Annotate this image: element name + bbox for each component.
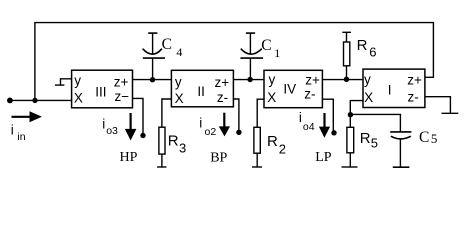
svg-text:X: X [364, 90, 373, 105]
svg-text:LP: LP [315, 150, 332, 165]
capacitor C4 [143, 33, 165, 80]
svg-text:z−: z− [115, 89, 130, 104]
svg-text:BP: BP [210, 150, 227, 165]
svg-text:2: 2 [279, 141, 286, 156]
svg-text:z+: z+ [215, 75, 230, 90]
resistor R3 [157, 127, 166, 167]
svg-text:y: y [364, 72, 371, 87]
svg-text:o4: o4 [303, 121, 315, 133]
svg-text:IV: IV [283, 82, 296, 97]
svg-text:R: R [357, 37, 368, 54]
wire z+ II to y IV [233, 79, 264, 81]
wire z+ IV to y I [322, 79, 363, 81]
multiplier U-III box [72, 70, 133, 108]
multiplier U-IV box [264, 70, 322, 107]
resistor R5 [342, 114, 358, 167]
svg-text:z+: z+ [407, 73, 422, 88]
svg-text:4: 4 [176, 45, 182, 59]
svg-text:y: y [269, 72, 276, 87]
node input terminal [7, 98, 13, 104]
svg-text:z+: z+ [305, 73, 320, 88]
capacitor C5 [390, 132, 411, 167]
svg-text:C: C [162, 36, 172, 53]
svg-text:I: I [388, 83, 392, 98]
svg-text:X: X [74, 91, 83, 106]
wire z- III down to HP node [133, 98, 144, 135]
svg-text:R: R [360, 130, 371, 147]
svg-text:R: R [267, 133, 278, 150]
wire y-stub T-bar [55, 84, 65, 86]
svg-text:R: R [168, 132, 179, 149]
node C1 junction [247, 77, 252, 82]
wire z- I to ground [425, 97, 451, 114]
wire X of IV down to R2 [257, 99, 264, 127]
svg-text:y: y [175, 75, 182, 90]
svg-text:i: i [102, 116, 105, 131]
multiplier U-II box [171, 70, 233, 107]
svg-text:z-: z- [217, 90, 228, 105]
node HP terminal [140, 133, 145, 138]
svg-text:II: II [197, 84, 205, 99]
capacitor C1 [240, 33, 263, 80]
svg-text:z-: z- [408, 89, 419, 104]
ground T-bar right [442, 112, 459, 114]
node BP terminal [236, 130, 241, 135]
node feedback junction [32, 98, 37, 103]
wire z- II down to BP node [233, 99, 239, 132]
svg-text:1: 1 [274, 46, 280, 60]
arrow i_in [12, 111, 42, 122]
svg-text:3: 3 [179, 141, 186, 156]
svg-text:o2: o2 [205, 126, 217, 138]
svg-text:C: C [261, 37, 271, 54]
resistor R2 [252, 127, 262, 167]
svg-text:o3: o3 [106, 125, 118, 137]
wire z+ III to y II [133, 79, 172, 81]
arrow i_o4 [319, 113, 330, 138]
svg-text:z+: z+ [114, 74, 129, 89]
svg-text:i: i [11, 123, 14, 138]
arrow i_o2 [219, 113, 230, 137]
multiplier U-I box [363, 69, 425, 107]
wire z- IV down to LP node [322, 99, 333, 133]
svg-text:5: 5 [431, 131, 438, 146]
node R5/C5 junction [348, 112, 353, 117]
svg-text:6: 6 [369, 45, 376, 60]
svg-text:in: in [17, 131, 25, 143]
resistor R6 [342, 32, 351, 79]
svg-text:X: X [267, 90, 276, 105]
svg-text:HP: HP [120, 150, 138, 165]
node LP terminal [331, 130, 336, 135]
wire feedback loop top rail [35, 23, 434, 101]
wire node to C5 [350, 114, 400, 131]
node R6 junction [344, 77, 349, 82]
svg-text:z-: z- [304, 87, 315, 102]
node C4 junction [150, 77, 155, 82]
arrow i_o3 [125, 113, 137, 141]
svg-text:5: 5 [371, 136, 378, 151]
svg-text:III: III [95, 85, 106, 100]
svg-text:X: X [175, 91, 184, 106]
svg-text:y: y [74, 73, 81, 88]
wire input [10, 99, 72, 101]
svg-text:i: i [299, 110, 302, 125]
wire X of II down to R3 [162, 99, 172, 127]
wire y-stub of U-III [61, 79, 72, 85]
svg-text:i: i [199, 116, 202, 131]
svg-text:C: C [419, 129, 429, 146]
wire X of I to R5 node [350, 101, 363, 115]
